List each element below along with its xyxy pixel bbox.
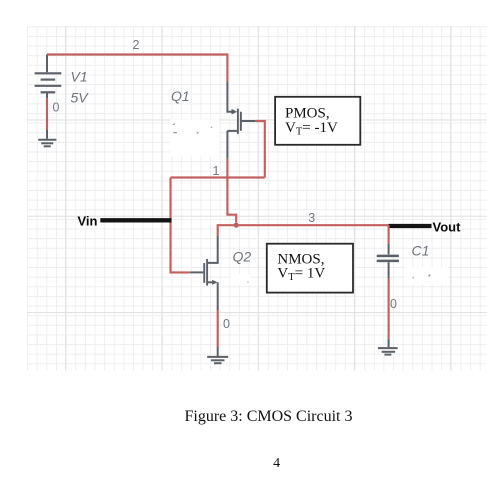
svg-text:4: 4 [273,456,280,471]
speck [211,126,213,128]
junction node 3 [234,223,239,228]
svg-text:Q2: Q2 [233,249,252,265]
capacitor C1 [377,243,399,278]
white smudge patch right of NMOS box [406,267,448,284]
annotation box NMOS [267,244,353,293]
svg-text:Q1: Q1 [171,88,190,104]
speck [247,281,249,283]
wire net 3 (node 3 to Vout / C1) [236,224,388,226]
Q1 arrow [232,109,238,115]
svg-text:5V: 5V [71,90,90,106]
svg-text:Vout: Vout [433,220,462,235]
svg-text:Figure 3: CMOS Circuit 3: Figure 3: CMOS Circuit 3 [184,408,352,425]
svg-text:2: 2 [133,38,140,52]
speck [174,132,177,134]
wire Q1 drain down to node 3 [227,158,236,222]
Vin terminal wire (thick) [100,218,171,222]
svg-text:Vin: Vin [78,214,98,229]
svg-text:VT= 1V: VT= 1V [277,265,325,283]
svg-text:1: 1 [213,164,220,178]
speck [412,277,414,279]
annotation box PMOS [275,97,360,145]
ground Q2 [207,347,228,363]
svg-text:V1: V1 [71,69,88,85]
white smudge right of Q2 [231,274,250,285]
wire V1 to ground [46,98,48,130]
svg-text:0: 0 [390,297,397,311]
wire Q2 source to ground [217,310,219,347]
wire net 1 to Q2 gate [171,178,190,273]
Vout terminal wire (thick) [389,224,432,228]
wire C1 to ground [388,278,390,339]
svg-text:VT= -1V: VT= -1V [285,120,338,138]
wire net 1 horizontal [171,176,265,178]
wire Q1 gate to node 1 [256,121,265,178]
wire net 3 to C1 [388,225,390,243]
battery V1 [35,55,62,99]
white smudge patch left of Q1 [170,120,219,157]
svg-text:3: 3 [308,211,315,225]
wire node 3 to Q2 drain [218,225,237,235]
wire net 2 (VDD from V1 to Q1 source) [47,55,227,83]
svg-text:0: 0 [53,101,60,115]
speck [197,132,199,134]
ground C1 [378,339,398,355]
svg-text:C1: C1 [412,243,430,259]
Q2 arrow [212,280,217,285]
transistor Q2 (NMOS) [190,236,218,310]
transistor Q1 (PMOS) [227,82,255,158]
speck [428,274,430,276]
ground V1 [38,130,56,146]
svg-text:0: 0 [223,317,230,331]
speck [173,123,175,126]
